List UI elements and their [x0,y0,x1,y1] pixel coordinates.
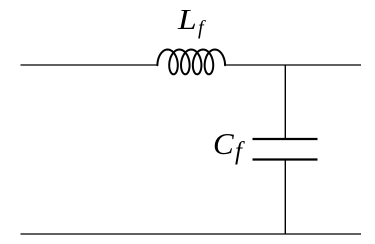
wire bottom rail [21,233,362,235]
capacitor C_f top plate [253,138,318,140]
label subscript f of L_f [198,18,204,38]
wire vertical lower (capacitor to bottom rail) [284,160,286,235]
wire vertical upper (node to capacitor) [284,65,286,139]
label C of C_f [213,128,234,159]
capacitor C_f bottom plate [253,158,318,160]
inductor L_f [157,50,225,75]
label L of L_f [178,7,197,35]
label subscript f of C_f [235,139,242,164]
wire top-left segment [21,64,158,66]
wire top-right segment [225,64,361,66]
